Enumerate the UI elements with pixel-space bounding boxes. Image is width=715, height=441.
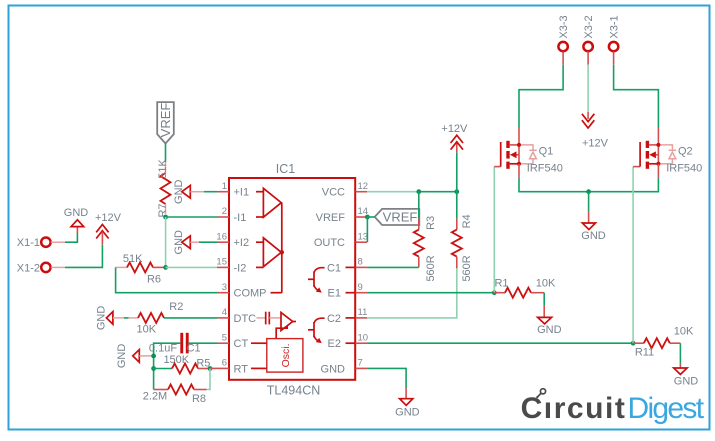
DTC capacitor symbol: [266, 312, 281, 325]
svg-text:R4: R4: [461, 214, 473, 228]
wire source bus Q1-Q2: [519, 178, 658, 192]
pin name C2: [327, 313, 355, 325]
pin 1 stub: [217, 181, 229, 192]
svg-text:16: 16: [216, 231, 227, 242]
IC1 refdes label: [276, 162, 296, 176]
wire Q1 gate drop: [494, 167, 500, 293]
pin 14 stub: [355, 206, 368, 217]
svg-text:150K: 150K: [163, 354, 189, 366]
pin 7 stub: [355, 358, 367, 369]
svg-text:DTC: DTC: [234, 313, 257, 325]
pin name CT: [234, 338, 267, 350]
pin name VCC: [322, 187, 345, 199]
svg-text:R3: R3: [425, 216, 437, 230]
connector X3-3: [558, 15, 570, 51]
resistor R4 560R vertical: [452, 192, 473, 282]
junction R5 right: [208, 366, 213, 371]
wire VCC net pin 12: [367, 191, 457, 193]
junction R5 left: [151, 366, 156, 371]
resistor R11 10K: [633, 326, 694, 359]
svg-text:4: 4: [222, 307, 227, 318]
IC1 TL494CN body: [229, 178, 355, 380]
+12V supply symbol at VCC: [441, 123, 468, 149]
svg-text:2: 2: [222, 206, 227, 217]
svg-text:GND: GND: [96, 306, 108, 331]
svg-text:13: 13: [358, 231, 369, 242]
svg-text:51K: 51K: [157, 159, 169, 179]
svg-text:GND: GND: [173, 230, 185, 255]
ground symbol at R2: [96, 306, 113, 331]
connector X1-2: [17, 262, 51, 274]
svg-text:VREF: VREF: [316, 212, 346, 224]
svg-text:1: 1: [222, 181, 227, 192]
net label VREF pentagon at pin 14: [375, 209, 420, 225]
svg-text:GND: GND: [116, 344, 128, 369]
svg-text:+12V: +12V: [582, 138, 609, 150]
comparator 2 inside IC1: [263, 238, 281, 267]
wire junction down to R6 junction: [165, 217, 167, 267]
pin name -I1: [234, 212, 264, 224]
DTC buffer triangle: [281, 313, 296, 331]
transistor Q1 IRF540: [501, 141, 563, 178]
+12V supply symbol left: [95, 212, 122, 241]
wire gnd to pin 1: [190, 191, 217, 193]
connector X3-1: [609, 15, 621, 51]
svg-text:C2: C2: [327, 313, 341, 325]
svg-text:IC1: IC1: [276, 162, 296, 176]
wire R3 to pin 8: [367, 266, 419, 268]
CircuitDigest logo: [521, 389, 705, 425]
junction E2/Q2 gate/R11: [631, 341, 636, 346]
svg-text:+12V: +12V: [441, 123, 468, 135]
junction VCC/+12V: [454, 189, 459, 194]
pin 4 stub: [217, 307, 229, 318]
svg-text:GND: GND: [395, 407, 420, 419]
svg-text:11: 11: [358, 307, 368, 318]
junction E1/Q1 gate/R1: [492, 290, 497, 295]
svg-text:GND: GND: [581, 230, 606, 242]
svg-text:560R: 560R: [461, 255, 473, 281]
svg-text:C1: C1: [187, 343, 201, 355]
svg-text:R2: R2: [169, 301, 183, 313]
wire X1-2 to +12V: [51, 241, 103, 268]
pin 2 stub: [217, 206, 229, 217]
pin 15 stub: [216, 257, 229, 268]
svg-text:9: 9: [358, 282, 363, 293]
svg-text:5: 5: [222, 332, 227, 343]
wire pin14 to pin13: [366, 217, 368, 242]
pin name COMP: [234, 288, 282, 300]
junction R6/pin15: [163, 265, 168, 270]
svg-text:+I2: +I2: [234, 237, 250, 249]
svg-text:10K: 10K: [137, 324, 157, 336]
wire VREF to R7: [165, 144, 167, 174]
svg-text:OUTC: OUTC: [314, 237, 345, 249]
wire X3-1 to Q2 drain: [614, 52, 659, 145]
svg-text:GND: GND: [173, 179, 185, 204]
pin name +I1: [234, 187, 264, 199]
junction comparator outputs: [280, 250, 284, 254]
resistor R1 10K: [494, 277, 556, 297]
pin 8 stub: [355, 257, 367, 268]
svg-text:Osci.: Osci.: [280, 343, 292, 367]
svg-text:VCC: VCC: [322, 187, 345, 199]
IC1 value TL494CN: [267, 384, 321, 398]
svg-text:Digest: Digest: [628, 392, 705, 425]
junction gnd loop: [151, 354, 156, 359]
wire R1 to ground: [543, 293, 545, 317]
svg-text:R8: R8: [192, 393, 206, 405]
svg-text:3: 3: [222, 282, 227, 293]
svg-text:X3-2: X3-2: [583, 15, 595, 38]
wire R4 to pin 11: [367, 268, 457, 318]
resistor R6 51K: [116, 253, 166, 286]
wire C1 left down the loop: [154, 343, 181, 389]
svg-text:Q2: Q2: [678, 146, 693, 158]
pin name E2: [328, 338, 356, 350]
pin name OUTC: [314, 237, 345, 249]
comparator 1 inside IC1: [263, 188, 281, 217]
svg-text:CT: CT: [234, 338, 249, 350]
connector X3-2: [583, 15, 595, 51]
transistor 1 (C1/E1) inside IC1: [308, 268, 325, 293]
junction source bus / gnd: [586, 189, 591, 194]
transistor Q2 IRF540: [640, 141, 702, 178]
wire +12V to VCC: [456, 142, 458, 192]
svg-text:GND: GND: [321, 363, 346, 375]
junction VCC/R3: [416, 189, 421, 194]
wire R8 right up to R5 junction: [207, 369, 211, 390]
wire gnd to loop junction: [139, 355, 153, 357]
wire X1-1 to ground: [51, 227, 78, 242]
svg-text:GND: GND: [537, 324, 562, 336]
svg-text:X1-2: X1-2: [17, 262, 40, 274]
svg-text:15: 15: [216, 257, 227, 268]
svg-text:10K: 10K: [536, 277, 556, 289]
transistor 2 (C2/E2) inside IC1: [308, 318, 325, 343]
pin 13 stub: [355, 231, 368, 242]
svg-text:10: 10: [358, 332, 369, 343]
ground symbol at X1-1: [64, 207, 89, 226]
resistor R5 150K: [154, 354, 211, 373]
pin name DTC: [234, 313, 266, 325]
svg-text:TL494CN: TL494CN: [267, 384, 321, 398]
wire pin14 to pentagon: [367, 216, 374, 218]
pin name GND: [321, 363, 346, 375]
resistor R8 2.2M: [143, 385, 207, 405]
pin 9 stub: [355, 282, 367, 293]
svg-text:E2: E2: [328, 338, 341, 350]
wire junction to pin 15: [166, 266, 217, 268]
svg-text:X1-1: X1-1: [17, 237, 40, 249]
svg-text:GND: GND: [674, 375, 699, 387]
svg-text:GND: GND: [64, 207, 89, 219]
svg-text:IRF540: IRF540: [527, 163, 563, 175]
pin 16 stub: [216, 231, 229, 242]
pin 6 stub: [217, 358, 229, 369]
ground symbol below source bus: [581, 223, 606, 242]
wire X3-3 to Q1 drain: [519, 52, 563, 145]
svg-text:-I2: -I2: [234, 262, 247, 274]
resistor R7 51K vertical: [157, 159, 171, 218]
wire Q2 gate drop: [633, 167, 640, 344]
pin 5 stub: [217, 332, 229, 343]
svg-text:X3-1: X3-1: [609, 15, 621, 38]
oscillator box Osci.: [267, 339, 303, 373]
svg-text:6: 6: [222, 358, 227, 369]
svg-text:X3-3: X3-3: [558, 15, 570, 38]
wire R5 junction to pin 6: [210, 367, 217, 369]
svg-text:IRF540: IRF540: [666, 163, 702, 175]
wire R6 left to pin 3: [116, 267, 217, 292]
wire junction to pin 2: [166, 216, 217, 218]
comparator output bus to COMP: [281, 203, 283, 293]
svg-text:+12V: +12V: [95, 212, 122, 224]
junction R7/pin2: [163, 215, 168, 220]
wire pin 7 to ground: [367, 368, 406, 398]
wire R11 to ground: [679, 343, 681, 367]
svg-text:560R: 560R: [425, 255, 437, 281]
wire gnd to R2: [113, 317, 138, 319]
ground symbol at pin 1: [173, 179, 191, 204]
svg-text:7: 7: [358, 358, 363, 369]
pin 3 stub: [217, 282, 229, 293]
svg-text:10K: 10K: [674, 326, 694, 338]
wire gnd to pin 16: [190, 241, 217, 243]
net label VREF top pentagon: [157, 102, 174, 143]
wire pin 10 E2 net: [367, 342, 633, 344]
pin 11 stub: [355, 307, 367, 318]
svg-text:2.2M: 2.2M: [143, 391, 167, 403]
capacitor C1 0.1uF: [149, 333, 201, 355]
pin 10 stub: [355, 332, 368, 343]
svg-text:12: 12: [358, 181, 369, 192]
ground symbol at pin 16: [173, 230, 191, 255]
svg-text:C1: C1: [327, 262, 341, 274]
ground symbol at R1: [537, 317, 562, 336]
pin 12 stub: [355, 181, 368, 192]
svg-text:51K: 51K: [123, 253, 143, 265]
wire X3-2 to +12V: [587, 52, 589, 120]
connector X1-1: [17, 237, 51, 249]
svg-text:VREF: VREF: [383, 210, 418, 225]
wire bus to ground: [588, 192, 590, 223]
+12V supply symbol down at X3-2: [582, 114, 609, 150]
pin name +I2: [234, 237, 264, 249]
svg-text:8: 8: [358, 257, 363, 268]
pin name E1: [328, 288, 356, 300]
svg-text:R1: R1: [494, 277, 508, 289]
pin name C1: [327, 262, 355, 274]
pin name VREF: [316, 212, 346, 224]
svg-text:VREF: VREF: [158, 103, 173, 138]
oscillator wire: [276, 326, 287, 339]
svg-text:-I1: -I1: [234, 212, 247, 224]
wire pin 9 E1 net: [367, 292, 494, 294]
resistor R2 10K: [137, 301, 184, 336]
resistor R3 560R vertical: [414, 192, 437, 282]
ground symbol at C1 loop: [116, 344, 139, 369]
svg-text:RT: RT: [234, 363, 249, 375]
svg-text:E1: E1: [328, 288, 341, 300]
ground symbol at pin 7: [395, 399, 420, 419]
svg-text:COMP: COMP: [234, 288, 267, 300]
svg-text:Q1: Q1: [539, 146, 554, 158]
svg-text:R11: R11: [635, 347, 654, 359]
svg-text:R6: R6: [147, 273, 161, 285]
pin name RT: [234, 363, 267, 375]
pin name -I2: [234, 262, 264, 274]
junction pin 14: [365, 215, 370, 220]
ground symbol at R11: [674, 368, 699, 387]
svg-text:+I1: +I1: [234, 187, 250, 199]
wire R2 to pin 4: [164, 317, 217, 319]
wire C1 right to pin 5: [189, 342, 217, 344]
